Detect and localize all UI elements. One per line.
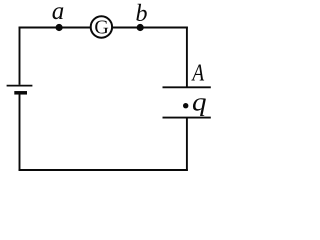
wire: right vertical, capacitor bottom plate down to bottom-right corner <box>186 118 188 171</box>
svg-text:G: G <box>94 17 108 39</box>
node b (junction dot) <box>137 24 144 31</box>
svg-text:b: b <box>136 1 148 27</box>
node a (junction dot) <box>56 24 63 31</box>
battery positive plate (long thin) <box>7 85 33 87</box>
wire: left vertical, corner down to battery positive plate <box>19 27 21 85</box>
svg-text:q: q <box>192 87 207 116</box>
wire: top, left corner to galvanometer <box>19 27 91 29</box>
battery negative plate (short thick) <box>14 91 27 95</box>
galvanometer G (circle) <box>91 16 112 37</box>
wire: top, galvanometer to top-right corner <box>112 27 188 29</box>
wire: left vertical, battery negative down to bottom wire <box>19 95 21 171</box>
capacitor bottom plate <box>163 117 211 119</box>
wire: bottom <box>19 169 188 171</box>
svg-text:A: A <box>191 59 205 86</box>
capacitor top plate A <box>163 86 211 88</box>
charge dot on plate <box>183 103 188 108</box>
svg-text:a: a <box>52 0 65 25</box>
wire: right vertical, top-right corner down to capacitor top plate <box>186 27 188 87</box>
